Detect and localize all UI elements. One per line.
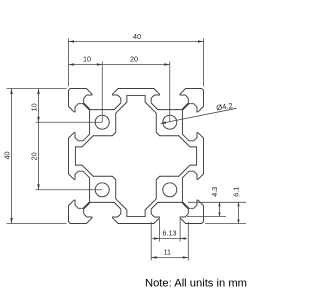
svg-text:10: 10 xyxy=(30,103,39,111)
ext lines 11 xyxy=(150,222,152,261)
centerline hole3 horizontal xyxy=(36,189,103,191)
dim line 6.1 xyxy=(238,202,240,223)
ext line top-left corner up xyxy=(68,39,70,87)
svg-text:11: 11 xyxy=(164,248,171,257)
ext line bottom edge rightward xyxy=(205,223,246,225)
profile outer contour xyxy=(69,89,204,224)
ext line top edge leftward xyxy=(7,88,67,90)
dim line 10 top xyxy=(69,64,103,66)
svg-text:6.13: 6.13 xyxy=(163,229,177,238)
svg-text:4.3: 4.3 xyxy=(210,187,219,197)
centerline hole1 horizontal xyxy=(36,121,103,123)
hole bottom-right xyxy=(163,183,177,197)
central plus cavity xyxy=(75,95,196,216)
svg-text:40: 40 xyxy=(133,32,141,41)
ext line lip underside rightward xyxy=(187,216,226,218)
svg-text:40: 40 xyxy=(3,152,12,160)
hole top-left xyxy=(95,115,109,129)
svg-text:10: 10 xyxy=(83,54,91,63)
ext line cavity roof rightward xyxy=(188,201,246,203)
dim line 10 left xyxy=(38,89,40,123)
ext line bottom edge leftward xyxy=(7,223,67,225)
dim line 11 xyxy=(151,257,188,259)
hole top-right xyxy=(163,115,177,129)
hole bottom-left xyxy=(95,183,109,197)
dim line 40 left xyxy=(11,89,13,224)
dim line 20 left xyxy=(38,122,40,190)
ext line top-right corner up xyxy=(203,39,205,87)
svg-text:20: 20 xyxy=(130,54,138,63)
dim line 40 top xyxy=(69,41,204,43)
ext lines 6.13 xyxy=(158,219,160,242)
svg-text:6.1: 6.1 xyxy=(231,187,240,197)
svg-text:20: 20 xyxy=(30,152,39,160)
centerline slot1 to hole1 xyxy=(101,62,103,123)
svg-text:Note: All units in mm: Note: All units in mm xyxy=(145,277,247,289)
leader line dia4.2 xyxy=(161,108,237,123)
dim line 6.13 xyxy=(152,238,187,240)
dim line 4.3 xyxy=(219,202,221,216)
dim line 20 top xyxy=(102,64,170,66)
centerline slot2 to hole2 xyxy=(169,62,171,123)
